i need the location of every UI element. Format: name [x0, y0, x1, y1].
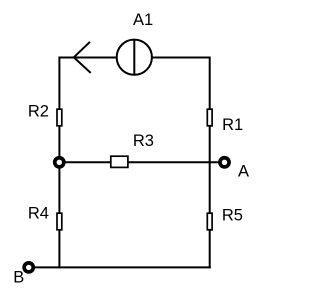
svg-text:R5: R5 — [222, 207, 243, 225]
ammeter A1 — [117, 40, 152, 75]
node A — [218, 156, 231, 169]
wire R4 to bottom — [58, 230, 60, 269]
junction node (left middle) — [53, 156, 66, 169]
svg-text:R3: R3 — [133, 132, 154, 150]
wire bottom — [29, 266, 211, 268]
svg-text:A1: A1 — [133, 11, 153, 29]
svg-text:B: B — [13, 269, 24, 287]
wire right lower — [209, 125, 211, 268]
wire left upper — [58, 57, 60, 111]
wire R2 to junction — [58, 125, 60, 162]
wire top-right segment — [153, 57, 210, 59]
resistor R4 — [57, 213, 62, 230]
node B — [22, 261, 35, 274]
resistor R5 — [207, 213, 212, 230]
wire middle right — [128, 161, 219, 163]
svg-text:R1: R1 — [222, 116, 243, 134]
svg-text:R2: R2 — [28, 102, 49, 120]
resistor R3 — [111, 156, 128, 167]
svg-text:R4: R4 — [28, 205, 49, 223]
resistor R1 — [207, 109, 212, 126]
wire junction to R4 — [58, 162, 60, 214]
wire right upper — [209, 57, 211, 111]
resistor R2 — [57, 109, 62, 126]
svg-text:A: A — [238, 163, 249, 181]
wire top-left segment — [59, 57, 116, 59]
current direction arrow — [74, 42, 91, 73]
wire middle left — [59, 161, 111, 163]
